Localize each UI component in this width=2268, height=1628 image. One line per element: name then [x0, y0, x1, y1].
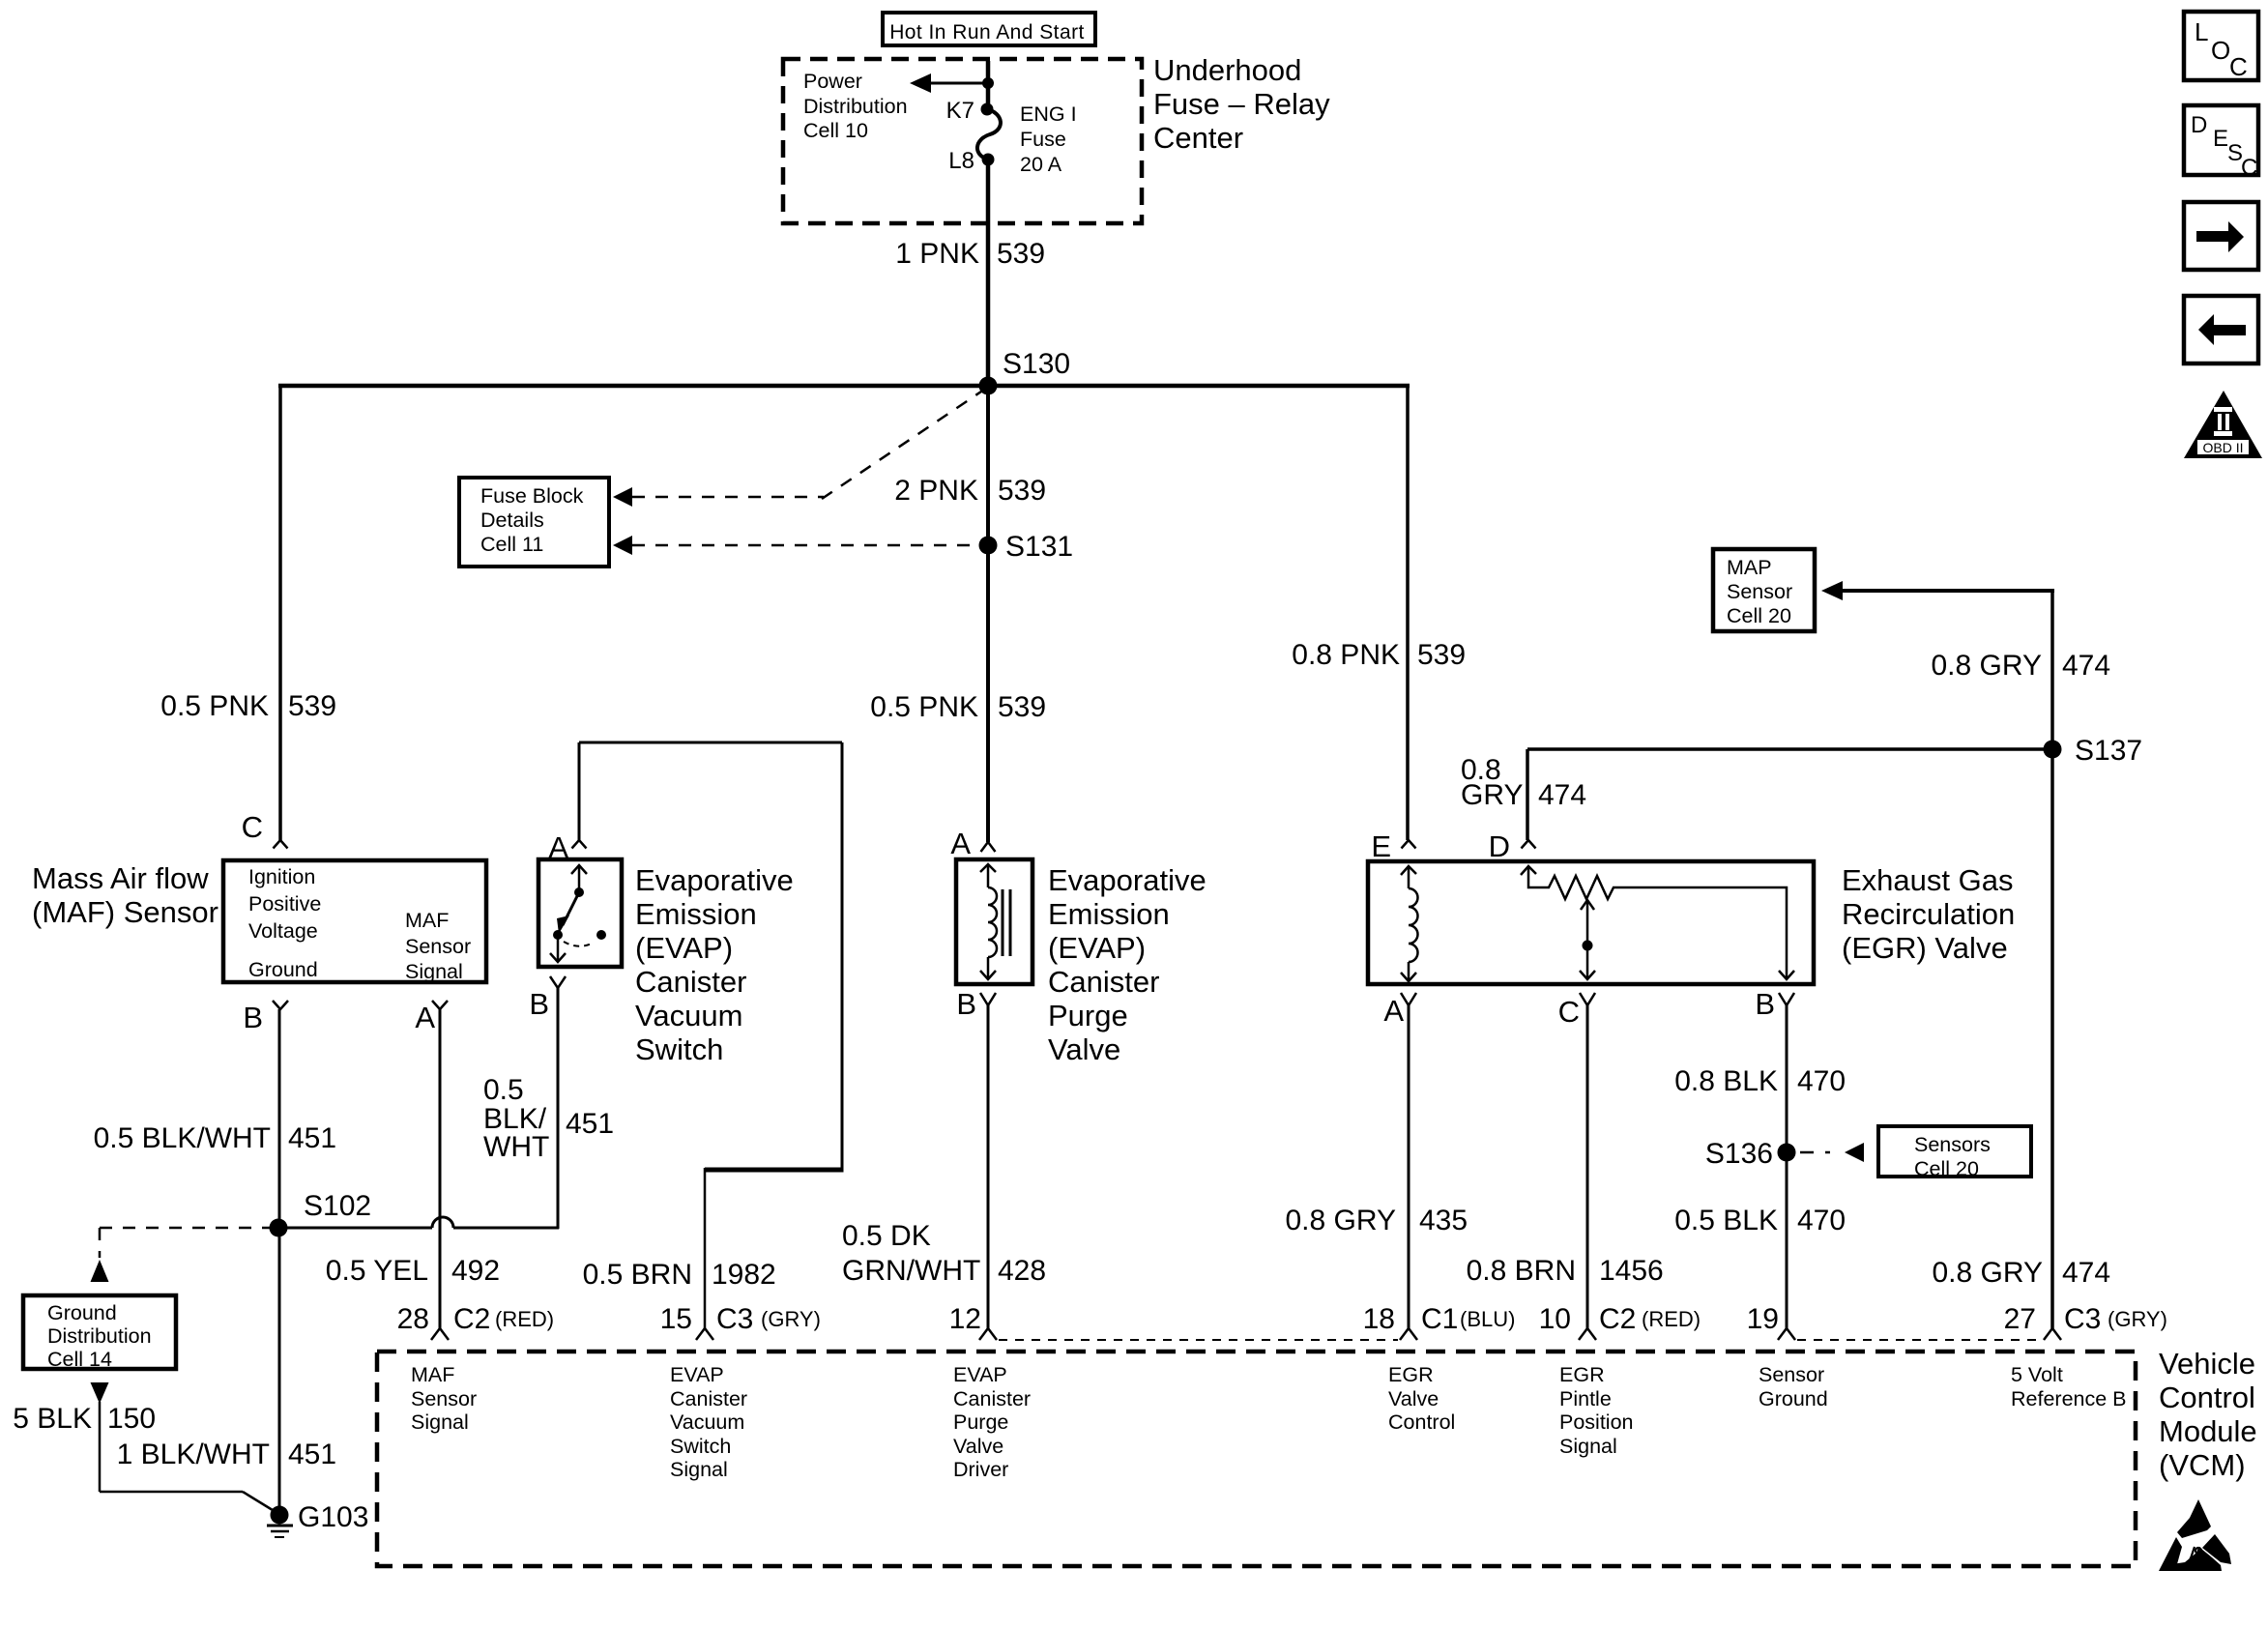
svg-text:Pintle: Pintle — [1559, 1387, 1612, 1410]
label Vehicle Control Module (VCM) — [2159, 1347, 2257, 1482]
label Power Distribution Cell 10 — [803, 70, 908, 142]
svg-text:Purge: Purge — [953, 1410, 1008, 1434]
svg-text:A: A — [950, 827, 971, 860]
pin function label EVAP Canister Purge Valve Driver — [953, 1363, 1031, 1481]
svg-text:428: 428 — [998, 1255, 1046, 1287]
svg-text:Position: Position — [1559, 1410, 1634, 1434]
connector pin E into EGR valve — [1402, 840, 1416, 849]
svg-text:L8: L8 — [948, 148, 974, 174]
underhood fuse-relay center dashed box — [783, 59, 1142, 223]
svg-text:Cell 14: Cell 14 — [47, 1348, 112, 1371]
svg-text:MAF: MAF — [411, 1363, 454, 1386]
node Hot In Run And Start box — [883, 13, 1095, 45]
svg-text:Cell 11: Cell 11 — [480, 533, 543, 556]
svg-text:451: 451 — [566, 1108, 614, 1140]
svg-text:S137: S137 — [2075, 735, 2142, 767]
fuse F ENG I element — [977, 109, 1001, 160]
wire label 0.8 GRY 474 (at EGR pin D) — [1461, 754, 1586, 811]
wire 0.5 BLK/WHT 451 from MAF pin B down to S102 and G103 — [278, 1009, 281, 1514]
node MAP Sensor Cell 20 box — [1713, 549, 1815, 631]
svg-text:MAP: MAP — [1727, 556, 1772, 579]
svg-text:12: 12 — [949, 1303, 981, 1335]
svg-text:Canister: Canister — [670, 1387, 747, 1410]
label Evaporative Emission (EVAP) Canister Vacuum Switch — [635, 863, 794, 1066]
svg-text:Signal: Signal — [1559, 1435, 1617, 1458]
pin function label MAF Sensor Signal — [411, 1363, 477, 1434]
component EVAP canister vacuum switch box — [538, 859, 622, 967]
pin function label Sensor Ground — [1759, 1363, 1828, 1410]
svg-text:Exhaust Gas: Exhaust Gas — [1842, 863, 2013, 897]
wire 2 PNK 539 from S130 to S131 and on to purge valve pin A — [986, 386, 990, 842]
wire 0.5 BLK/WHT 451 from vacuum switch pin B down to S102 bus — [557, 988, 560, 1229]
svg-text:Distribution: Distribution — [47, 1324, 152, 1348]
svg-text:Positive: Positive — [248, 892, 321, 916]
wire S130 horizontal bus — [278, 384, 1410, 389]
svg-text:27: 27 — [2004, 1303, 2036, 1335]
switch symbol inside vacuum switch — [550, 865, 606, 962]
wire label 0.5 DK GRN/WHT 428 — [842, 1220, 1046, 1287]
svg-text:0.8 GRY: 0.8 GRY — [1932, 1257, 2043, 1289]
pin label 10 C2 (RED) — [1539, 1303, 1701, 1335]
svg-text:WHT: WHT — [483, 1131, 549, 1163]
svg-text:5 Volt: 5 Volt — [2011, 1363, 2063, 1386]
svg-text:Vacuum: Vacuum — [635, 999, 742, 1032]
svg-text:1 BLK/WHT: 1 BLK/WHT — [117, 1439, 270, 1470]
svg-text:470: 470 — [1797, 1065, 1846, 1097]
svg-text:(EGR) Valve: (EGR) Valve — [1842, 931, 2008, 965]
pin function label EVAP Canister Vacuum Switch Signal — [670, 1363, 747, 1481]
wire label 5 BLK 150 — [13, 1403, 156, 1435]
svg-text:E: E — [1371, 829, 1391, 863]
svg-text:539: 539 — [997, 238, 1045, 270]
connector pin 10 at VCM — [1579, 1328, 1596, 1340]
svg-text:S131: S131 — [1005, 531, 1073, 563]
fuse F ENG I terminal L8 dot — [982, 154, 995, 166]
connector pin 19 at VCM — [1778, 1328, 1795, 1340]
svg-text:Signal: Signal — [411, 1410, 469, 1434]
component EVAP canister purge valve box — [956, 859, 1032, 984]
svg-text:2 PNK: 2 PNK — [894, 475, 978, 507]
svg-text:Vacuum: Vacuum — [670, 1410, 744, 1434]
svg-text:539: 539 — [998, 475, 1046, 507]
svg-text:Ground: Ground — [1759, 1387, 1828, 1410]
svg-text:0.5: 0.5 — [483, 1074, 524, 1106]
svg-text:Sensor: Sensor — [405, 935, 471, 958]
svg-text:C2: C2 — [453, 1303, 490, 1335]
icon LOC box — [2184, 12, 2258, 81]
svg-text:Power: Power — [803, 70, 862, 93]
wire thin dashed link pin 19 to pin 27 — [1797, 1339, 2042, 1341]
svg-text:OBD II: OBD II — [2202, 440, 2243, 455]
fuse F ENG I terminal K7 dot — [981, 103, 994, 116]
svg-text:Underhood: Underhood — [1153, 53, 1301, 87]
svg-text:C1: C1 — [1421, 1303, 1458, 1335]
svg-text:EGR: EGR — [1388, 1363, 1434, 1386]
svg-text:28: 28 — [397, 1303, 429, 1335]
component VCM dashed box — [377, 1352, 2136, 1566]
svg-text:C3: C3 — [716, 1303, 753, 1335]
svg-text:(EVAP): (EVAP) — [1048, 931, 1146, 965]
svg-text:1982: 1982 — [712, 1259, 776, 1291]
svg-text:D: D — [1489, 829, 1510, 863]
svg-text:Control: Control — [2159, 1381, 2255, 1414]
svg-text:Distribution: Distribution — [803, 95, 908, 118]
svg-text:Reference B: Reference B — [2011, 1387, 2127, 1410]
pin function label 5 Volt Reference B — [2011, 1363, 2127, 1410]
svg-text:0.5 YEL: 0.5 YEL — [326, 1255, 428, 1287]
wire 0.8 BLK 470 from EGR pin B down through S136 to VCM pin 19 — [1786, 1005, 1788, 1328]
svg-text:C: C — [242, 810, 263, 844]
svg-text:Switch: Switch — [670, 1435, 731, 1458]
value label ENG I Fuse 20 A — [1020, 102, 1077, 176]
connector pin 27 at VCM — [2044, 1328, 2061, 1340]
svg-text:S102: S102 — [304, 1190, 371, 1222]
svg-text:D: D — [2191, 112, 2207, 138]
wire 5 BLK 150 from ground distribution down to G103 — [91, 1382, 281, 1515]
svg-text:L: L — [2195, 17, 2208, 46]
icon DESC box — [2184, 105, 2258, 181]
wire 0.8 GRY 474 from MAP corner down through S137 to VCM pin 27 — [2050, 591, 2054, 1328]
svg-text:Sensor: Sensor — [1759, 1363, 1824, 1386]
svg-text:0.5 BLK/WHT: 0.5 BLK/WHT — [94, 1122, 271, 1154]
ground G103 — [267, 1506, 293, 1538]
svg-text:Sensor: Sensor — [1727, 580, 1792, 603]
svg-text:Fuse Block: Fuse Block — [480, 484, 584, 508]
svg-text:Canister: Canister — [635, 965, 746, 999]
wire label 0.5 BRN 1982 — [583, 1259, 776, 1291]
pin label 18 C1 (BLU) — [1363, 1303, 1516, 1335]
svg-text:Recirculation: Recirculation — [1842, 897, 2015, 931]
wire 0.5 PNK 539 left drop to MAF pin C — [278, 386, 282, 840]
svg-text:Signal: Signal — [670, 1458, 728, 1481]
svg-text:Signal: Signal — [405, 960, 463, 983]
svg-text:Mass Air flow: Mass Air flow — [32, 861, 209, 895]
potentiometer wiper inside EGR valve — [1580, 900, 1595, 979]
svg-text:492: 492 — [451, 1255, 500, 1287]
coil symbol inside purge valve — [980, 864, 1010, 979]
svg-text:Control: Control — [1388, 1410, 1455, 1434]
svg-text:Cell 20: Cell 20 — [1914, 1157, 1979, 1180]
svg-text:K7: K7 — [946, 98, 974, 124]
wire label 0.8 BRN 1456 — [1467, 1255, 1664, 1287]
svg-text:(VCM): (VCM) — [2159, 1448, 2246, 1482]
connector pin B under MAF sensor — [273, 1001, 288, 1009]
splice S130 dot — [979, 377, 998, 395]
wire 0.5 YEL 492 from MAF pin A down to VCM pin 28 — [439, 1009, 442, 1328]
svg-text:Ground: Ground — [248, 958, 318, 981]
svg-text:Evaporative: Evaporative — [635, 863, 794, 897]
wire 0.8 BRN 1456 from EGR pin C down to VCM pin 10 — [1586, 1005, 1589, 1328]
connector pin D into EGR valve — [1522, 840, 1536, 849]
svg-text:Valve: Valve — [1048, 1032, 1120, 1066]
svg-text:Vehicle: Vehicle — [2159, 1347, 2255, 1381]
wire 0.8 GRY 435 from EGR pin A down to VCM pin 18 — [1408, 1005, 1410, 1328]
wire S137 branch to EGR pin D — [1527, 749, 2052, 840]
svg-text:Cell 20: Cell 20 — [1727, 604, 1791, 627]
wire dashed reference from S136 to sensors box — [1800, 1143, 1864, 1162]
svg-text:B: B — [243, 1001, 263, 1034]
splice S137 dot — [2044, 741, 2062, 759]
svg-text:(RED): (RED) — [1642, 1307, 1701, 1331]
label Evaporative Emission (EVAP) Canister Purge Valve — [1048, 863, 1207, 1066]
svg-text:Driver: Driver — [953, 1458, 1008, 1481]
svg-text:0.8 BLK: 0.8 BLK — [1674, 1065, 1778, 1097]
connector pin 28 at VCM — [431, 1328, 449, 1340]
svg-text:Purge: Purge — [1048, 999, 1128, 1032]
svg-text:Canister: Canister — [953, 1387, 1031, 1410]
wire label 0.5 PNK 539 (left) — [160, 690, 336, 722]
label Exhaust Gas Recirculation (EGR) Valve — [1842, 863, 2015, 965]
svg-text:0.8 PNK: 0.8 PNK — [1292, 639, 1400, 671]
node Ground Distribution Cell 14 box — [23, 1295, 176, 1371]
connector pin A into EVAP canister vacuum switch — [572, 840, 587, 849]
svg-text:B: B — [956, 987, 976, 1021]
svg-text:EVAP: EVAP — [953, 1363, 1007, 1386]
pin function label EGR Pintle Position Signal — [1559, 1363, 1634, 1458]
svg-text:20 A: 20 A — [1020, 153, 1062, 176]
wire label 0.8 GRY 474 (upper) — [1931, 650, 2110, 682]
svg-text:5 BLK: 5 BLK — [13, 1403, 92, 1435]
svg-text:435: 435 — [1419, 1205, 1468, 1236]
connector pin B under EGR valve — [1779, 993, 1794, 1005]
svg-text:Cell 10: Cell 10 — [803, 119, 868, 142]
wire label 0.5 BLK/WHT 451 — [94, 1122, 336, 1154]
svg-text:Canister: Canister — [1048, 965, 1159, 999]
splice S136 dot — [1778, 1144, 1796, 1162]
wire thin dashed link pin 12 to pin 18 — [999, 1339, 1398, 1341]
svg-text:451: 451 — [288, 1439, 336, 1470]
svg-text:Switch: Switch — [635, 1032, 723, 1066]
svg-text:(GRY): (GRY) — [2108, 1307, 2167, 1331]
wire 1 PNK 539 from fuse L8 down to S130 — [986, 160, 991, 388]
wire 0.5 DK GRN/WHT 428 from purge valve pin B to VCM pin 12 — [987, 1005, 990, 1328]
svg-text:Emission: Emission — [1048, 897, 1170, 931]
svg-text:B: B — [529, 987, 549, 1021]
pin function label EGR Valve Control — [1388, 1363, 1455, 1434]
connector pin A under MAF sensor — [432, 1001, 448, 1009]
svg-text:Fuse: Fuse — [1020, 128, 1066, 151]
svg-text:(EVAP): (EVAP) — [635, 931, 733, 965]
wire label 0.8 BLK 470 — [1674, 1065, 1846, 1097]
svg-text:0.8 BRN: 0.8 BRN — [1467, 1255, 1576, 1287]
svg-text:19: 19 — [1747, 1303, 1779, 1335]
pin label 27 C3 (GRY) — [2004, 1303, 2167, 1335]
svg-text:GRY: GRY — [1461, 779, 1523, 811]
wire S102 horizontal to vacuum switch pin B wire with hop over YEL wire — [278, 1217, 559, 1228]
svg-text:C: C — [2229, 52, 2248, 81]
svg-text:Details: Details — [480, 509, 544, 532]
svg-text:S130: S130 — [1003, 348, 1070, 380]
svg-text:A: A — [1383, 994, 1404, 1028]
ESD static sensitive symbol — [2159, 1499, 2231, 1571]
svg-text:15: 15 — [660, 1303, 692, 1335]
svg-text:0.5 BRN: 0.5 BRN — [583, 1259, 692, 1291]
svg-text:1456: 1456 — [1599, 1255, 1664, 1287]
icon back arrow box — [2184, 296, 2258, 363]
label Underhood Fuse-Relay Center — [1153, 53, 1330, 155]
svg-text:451: 451 — [288, 1122, 336, 1154]
svg-text:150: 150 — [107, 1403, 156, 1435]
wire label 0.8 PNK 539 — [1292, 639, 1466, 671]
svg-text:C: C — [2241, 155, 2257, 181]
component MAF sensor box — [223, 860, 486, 983]
connector pin 15 at VCM — [696, 1328, 713, 1340]
pin label 28 C2 (RED) — [397, 1303, 554, 1335]
svg-text:474: 474 — [1538, 779, 1586, 811]
svg-text:(GRY): (GRY) — [761, 1307, 821, 1331]
svg-text:Valve: Valve — [953, 1435, 1003, 1458]
svg-text:EGR: EGR — [1559, 1363, 1605, 1386]
wire arrow into MAP sensor box — [1821, 581, 2054, 600]
wire label 0.5 BLK 470 — [1674, 1205, 1846, 1236]
potentiometer symbol inside EGR valve — [1521, 866, 1794, 979]
wire label 2 PNK 539 — [894, 475, 1046, 507]
svg-text:ENG I: ENG I — [1020, 102, 1077, 126]
node Sensors Cell 20 box — [1878, 1126, 2031, 1180]
pin label 15 C3 (GRY) — [660, 1303, 821, 1335]
svg-text:539: 539 — [998, 691, 1046, 723]
svg-text:Hot In Run And Start: Hot In Run And Start — [889, 21, 1085, 44]
wire label 0.8 GRY 435 — [1285, 1205, 1468, 1236]
component EGR valve box — [1368, 861, 1814, 984]
svg-text:18: 18 — [1363, 1303, 1395, 1335]
connector pin C under EGR valve — [1580, 993, 1595, 1005]
svg-text:0.8 GRY: 0.8 GRY — [1285, 1205, 1396, 1236]
icon OBD II triangle — [2184, 391, 2262, 458]
svg-text:S136: S136 — [1705, 1138, 1773, 1170]
label Mass Air flow (MAF) Sensor — [32, 861, 218, 929]
svg-text:(RED): (RED) — [495, 1307, 554, 1331]
svg-text:0.5 DK: 0.5 DK — [842, 1220, 931, 1252]
connector pin B under vacuum switch — [550, 976, 566, 988]
svg-text:474: 474 — [2062, 650, 2110, 682]
svg-text:Evaporative: Evaporative — [1048, 863, 1207, 897]
splice S102 dot — [270, 1219, 288, 1237]
svg-text:539: 539 — [1417, 639, 1466, 671]
svg-text:C: C — [1558, 995, 1580, 1029]
node Fuse Block Details Cell 11 box — [459, 478, 609, 567]
wire dashed reference from S130 to fuse block details box — [613, 390, 984, 507]
wire branch to power distribution arrow — [926, 82, 990, 85]
svg-text:0.8 GRY: 0.8 GRY — [1931, 650, 2042, 682]
svg-text:Fuse – Relay: Fuse – Relay — [1153, 87, 1330, 121]
svg-text:A: A — [415, 1001, 435, 1034]
svg-text:E: E — [2213, 126, 2228, 152]
connector pin B under purge valve — [980, 993, 996, 1005]
wire dashed reference from S131 to fuse block details box — [613, 536, 976, 555]
arrowhead to power distribution — [910, 73, 931, 93]
splice S131 dot — [979, 537, 998, 555]
connector pin A into EVAP purge valve — [981, 842, 996, 852]
svg-text:Center: Center — [1153, 121, 1243, 155]
svg-text:Ignition: Ignition — [248, 865, 315, 888]
svg-text:0.5 BLK: 0.5 BLK — [1674, 1205, 1778, 1236]
svg-text:1 PNK: 1 PNK — [895, 238, 979, 270]
svg-text:Module: Module — [2159, 1414, 2257, 1448]
wire label 1 BLK/WHT 451 — [117, 1439, 336, 1470]
svg-text:GRN/WHT: GRN/WHT — [842, 1255, 980, 1287]
svg-text:Emission: Emission — [635, 897, 757, 931]
junction dot above K7 — [982, 77, 994, 89]
wire label 0.5 YEL 492 — [326, 1255, 500, 1287]
connector pin 12 at VCM — [979, 1328, 997, 1340]
svg-text:O: O — [2211, 36, 2230, 65]
coil symbol inside EGR valve — [1401, 866, 1418, 981]
svg-text:B: B — [1755, 987, 1775, 1021]
svg-text:C3: C3 — [2064, 1303, 2101, 1335]
svg-text:(BLU): (BLU) — [1460, 1307, 1515, 1331]
svg-text:(MAF) Sensor: (MAF) Sensor — [32, 895, 218, 929]
wire label 1 PNK 539 — [895, 238, 1045, 270]
connector pin 18 at VCM — [1400, 1328, 1417, 1340]
icon forward arrow box — [2184, 202, 2258, 270]
wire label 0.5 PNK 539 (center) — [870, 691, 1046, 723]
svg-text:C2: C2 — [1599, 1303, 1636, 1335]
wire feed from box top to fuse terminal K7 — [986, 61, 991, 108]
connector pin A under EGR valve — [1401, 993, 1416, 1005]
svg-text:EVAP: EVAP — [670, 1363, 724, 1386]
svg-text:Sensors: Sensors — [1914, 1133, 1991, 1156]
wire label 0.8 GRY 474 (lower right) — [1932, 1257, 2110, 1289]
svg-text:10: 10 — [1539, 1303, 1571, 1335]
wire 0.8 PNK 539 right drop from S130 bus to EGR pin E — [1406, 386, 1410, 840]
svg-text:MAF: MAF — [405, 909, 449, 932]
svg-text:Ground: Ground — [47, 1301, 117, 1324]
connector pin C into MAF sensor — [274, 840, 288, 849]
svg-text:Voltage: Voltage — [248, 919, 318, 943]
svg-text:0.5 PNK: 0.5 PNK — [160, 690, 269, 722]
svg-text:Sensor: Sensor — [411, 1387, 477, 1410]
wire dashed from S102 to ground distribution cell — [91, 1228, 276, 1282]
wire EVAP switch signal from pin A up over to VCM pin 15 — [579, 742, 844, 1328]
svg-text:0.5 PNK: 0.5 PNK — [870, 691, 978, 723]
wire label 0.5 BLK/WHT 451 (three line) — [483, 1074, 614, 1163]
svg-text:539: 539 — [288, 690, 336, 722]
svg-text:474: 474 — [2062, 1257, 2110, 1289]
svg-text:G103: G103 — [298, 1501, 368, 1533]
svg-text:470: 470 — [1797, 1205, 1846, 1236]
svg-text:Valve: Valve — [1388, 1387, 1439, 1410]
